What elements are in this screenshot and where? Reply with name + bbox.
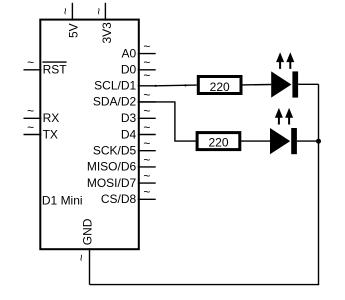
svg-text:~: ~ — [143, 137, 150, 151]
svg-text:A0: A0 — [122, 46, 137, 60]
svg-text:~: ~ — [92, 8, 106, 15]
svg-text:~: ~ — [143, 120, 150, 134]
svg-text:D1 Mini: D1 Mini — [42, 194, 83, 208]
LED1 cathode bar — [292, 71, 298, 97]
LED2 anode triangle — [270, 128, 290, 154]
wire R1 to LED1 — [243, 84, 272, 86]
svg-text:SCK/D5: SCK/D5 — [93, 144, 137, 158]
LED1 anode triangle — [271, 71, 291, 97]
wire R2 to LED2 — [240, 140, 270, 142]
svg-text:TX: TX — [43, 127, 58, 141]
pin A0 stub (right) — [138, 53, 156, 55]
wire SCL/D1 to R1 — [156, 84, 197, 87]
svg-text:~: ~ — [59, 8, 73, 15]
pin 5V wire (top) — [71, 3, 73, 21]
IC body U1 (D1 Mini) — [40, 20, 139, 250]
svg-text:~: ~ — [27, 120, 34, 134]
svg-text:D3: D3 — [121, 111, 137, 125]
svg-text:~: ~ — [143, 88, 150, 102]
wire LED1 to right rail — [298, 83, 318, 85]
svg-text:~: ~ — [27, 56, 34, 70]
svg-text:~: ~ — [143, 153, 150, 167]
wire LED2 to right rail — [297, 140, 319, 142]
svg-text:~: ~ — [143, 40, 150, 54]
pin D4 stub (right) — [138, 134, 156, 136]
pin SCK/D5 stub (right) — [138, 150, 156, 152]
ground return wire (bottom) — [90, 284, 320, 286]
pin RX stub (left) — [24, 117, 42, 119]
pin MISO/D6 stub (right) — [138, 166, 156, 168]
svg-text:RST: RST — [43, 63, 68, 77]
svg-text:~: ~ — [143, 104, 150, 118]
LED1 arrow 1 — [276, 52, 284, 69]
svg-text:~: ~ — [143, 185, 150, 199]
svg-text:220: 220 — [210, 80, 230, 94]
LED2 arrow 1 — [275, 108, 283, 125]
pin 3V3 wire (top) — [104, 3, 106, 21]
svg-text:5V: 5V — [66, 23, 80, 38]
svg-text:MISO/D6: MISO/D6 — [87, 160, 137, 174]
pin TX stub (left) — [24, 134, 42, 136]
right rail wire (vertical) — [318, 84, 320, 284]
pin RST stub (left) — [24, 69, 42, 71]
svg-text:~: ~ — [27, 104, 34, 118]
pin SDA/D2 stub (right) — [138, 101, 156, 103]
pin D3 stub (right) — [138, 117, 156, 119]
resistor R1 220 — [198, 77, 241, 94]
pin SCL/D1 stub (right) — [138, 85, 156, 87]
wire SDA/D2 to R2 (bend down) — [138, 102, 197, 141]
LED2 cathode bar — [291, 128, 297, 154]
svg-text:3V3: 3V3 — [100, 22, 114, 44]
resistor R2 220 — [197, 133, 240, 150]
svg-text:~: ~ — [143, 68, 150, 82]
svg-text:220: 220 — [208, 136, 228, 150]
pin MOSI/D7 stub (right) — [138, 182, 156, 184]
svg-text:MOSI/D7: MOSI/D7 — [87, 176, 137, 190]
svg-text:GND: GND — [80, 218, 94, 245]
LED1 arrow 2 — [286, 52, 294, 69]
wire bendpoint dot — [155, 85, 157, 87]
svg-text:~: ~ — [75, 254, 89, 261]
pin GND wire (bottom) — [89, 248, 91, 284]
svg-text:D0: D0 — [121, 63, 137, 77]
wire bendpoint dot — [184, 84, 186, 86]
svg-text:RX: RX — [43, 111, 60, 125]
junction dot — [316, 139, 321, 144]
svg-text:~: ~ — [143, 169, 150, 183]
RST overline — [42, 61, 66, 63]
LED2 arrow 2 — [285, 108, 293, 125]
pin CS/D8 stub (right) — [138, 198, 156, 200]
svg-text:CS/D8: CS/D8 — [101, 192, 137, 206]
pin D0 stub (right) — [138, 69, 156, 71]
svg-text:D4: D4 — [121, 127, 137, 141]
svg-text:SCL/D1: SCL/D1 — [94, 79, 136, 93]
svg-text:SDA/D2: SDA/D2 — [93, 95, 137, 109]
